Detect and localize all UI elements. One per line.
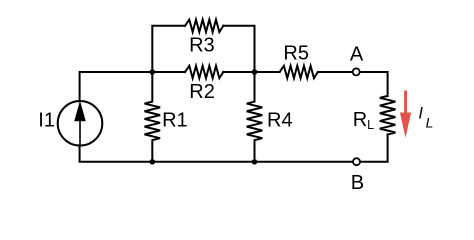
node A terminal circle	[353, 68, 360, 75]
resistor R2	[185, 66, 223, 78]
wire from node B to RL bottom	[360, 135, 388, 162]
resistor R1	[145, 72, 161, 162]
resistor R4	[247, 72, 263, 162]
wire from node A to RL top	[360, 72, 388, 96]
wire top middle between R2 and R5	[223, 71, 279, 73]
svg-text:R1: R1	[162, 109, 188, 131]
svg-text:R2: R2	[189, 81, 215, 103]
current arrow IL (red)	[400, 91, 411, 138]
svg-text:IL: IL	[418, 104, 433, 130]
wire R3 branch left vertical	[152, 26, 185, 72]
junction dot bottom-right	[252, 159, 258, 165]
resistor R5	[280, 66, 318, 78]
junction dot top-right	[252, 69, 258, 75]
svg-text:R5: R5	[283, 42, 309, 64]
resistor R3	[185, 20, 223, 32]
svg-text:A: A	[350, 44, 364, 66]
current source I1 arrow	[74, 101, 86, 146]
wire R3 branch right vertical	[223, 26, 254, 72]
svg-text:I1: I1	[38, 110, 55, 132]
junction dot bottom-left	[150, 159, 156, 165]
svg-text:RL: RL	[353, 109, 374, 132]
current source I1 circle	[58, 101, 103, 146]
wire top-left from I1 to node column 1	[80, 72, 185, 101]
svg-text:R4: R4	[267, 109, 293, 131]
resistor RL	[380, 96, 396, 135]
node B terminal circle	[353, 158, 360, 165]
svg-text:R3: R3	[189, 35, 215, 57]
wire from R5 to node A	[318, 71, 353, 73]
junction dot top-left	[150, 69, 156, 75]
svg-text:B: B	[351, 172, 364, 194]
wire bottom from I1 to node B	[80, 145, 353, 162]
